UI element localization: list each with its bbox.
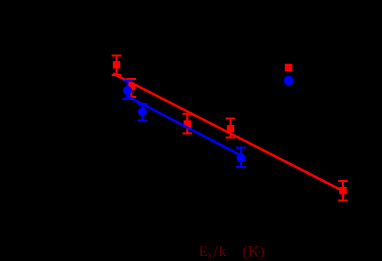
blue point 1 marker	[123, 86, 132, 95]
red point 2 error bar	[127, 79, 137, 97]
red point 3 marker	[184, 120, 191, 127]
red point 4 marker	[227, 125, 234, 132]
red point 2 marker	[128, 83, 135, 90]
blue point 3 marker	[237, 154, 246, 163]
red point 3 error bar	[183, 114, 193, 134]
blue point 1 error bar	[123, 81, 133, 99]
blue point 2 error bar	[137, 104, 147, 121]
legend red square	[285, 64, 293, 72]
blue point 2 marker	[138, 108, 147, 117]
red point 1 marker	[113, 61, 120, 68]
blue fit line	[126, 96, 241, 156]
svg-text:k: k	[219, 244, 227, 260]
red point 5 error bar	[338, 181, 348, 201]
red point 5 marker	[339, 187, 346, 194]
svg-text:(K): (K)	[243, 244, 265, 261]
svg-text:/: /	[213, 242, 218, 261]
red point 1 error bar	[112, 56, 122, 76]
legend blue circle	[284, 76, 293, 85]
blue point 3 error bar	[236, 148, 246, 167]
red fit line	[113, 74, 343, 192]
x-axis label E_a/k (K)	[199, 242, 265, 261]
red point 4 error bar	[226, 119, 236, 138]
